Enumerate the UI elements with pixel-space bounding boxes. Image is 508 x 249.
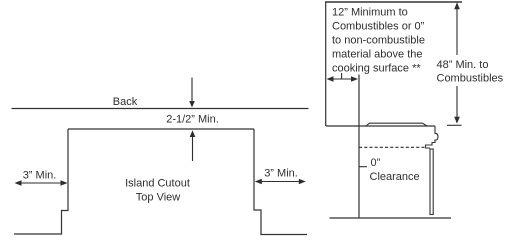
svg-text:48” Min. to: 48” Min. to bbox=[437, 59, 489, 71]
dashed line bottom of cooktop box bbox=[359, 146, 426, 148]
rear wall line (side view) bbox=[325, 2, 327, 126]
svg-text:Island Cutout: Island Cutout bbox=[125, 178, 190, 190]
svg-text:Combustibles or 0”: Combustibles or 0” bbox=[332, 21, 425, 33]
svg-text:0”: 0” bbox=[371, 157, 381, 169]
48 inch dimension vertical line with arrows bbox=[447, 2, 462, 125]
arrow down to back line (2-1/2 min dimension upper) bbox=[189, 78, 195, 108]
svg-text:Top View: Top View bbox=[136, 192, 180, 204]
back wall line (top view) bbox=[12, 108, 309, 110]
island cutout top edge line bbox=[68, 128, 254, 130]
double arrow 3 inch right bbox=[255, 179, 306, 185]
svg-text:cooking surface **: cooking surface ** bbox=[332, 63, 421, 75]
cabinet side line (0 clearance line) bbox=[358, 75, 360, 219]
double arrow 3 inch left bbox=[15, 180, 68, 186]
12 inch dimension arrow bbox=[327, 73, 359, 82]
svg-text:material above the: material above the bbox=[332, 49, 423, 61]
svg-text:12” Minimum to: 12” Minimum to bbox=[332, 6, 408, 18]
svg-text:to non-combustible: to non-combustible bbox=[332, 35, 425, 47]
svg-text:3” Min.: 3” Min. bbox=[23, 170, 57, 182]
island cutout left edge with counter step bbox=[14, 129, 68, 234]
svg-text:3” Min.: 3” Min. bbox=[264, 168, 298, 180]
svg-text:2-1/2” Min.: 2-1/2” Min. bbox=[166, 114, 219, 126]
arrow up to cutout top edge (2-1/2 min dimension lower) bbox=[190, 130, 196, 161]
oven side panel bbox=[430, 149, 433, 215]
island cutout right edge with counter step bbox=[254, 129, 307, 235]
svg-text:Back: Back bbox=[113, 96, 138, 108]
ceiling / hood line bbox=[325, 1, 462, 3]
range right side profile with hinge bbox=[426, 126, 439, 148]
floor line bbox=[330, 217, 452, 219]
cooktop surface profile bbox=[366, 123, 427, 126]
leader line for 0 clearance bbox=[359, 166, 367, 168]
svg-text:Clearance: Clearance bbox=[370, 171, 420, 183]
countertop line bbox=[326, 125, 435, 127]
svg-text:Combustibles: Combustibles bbox=[437, 73, 504, 85]
